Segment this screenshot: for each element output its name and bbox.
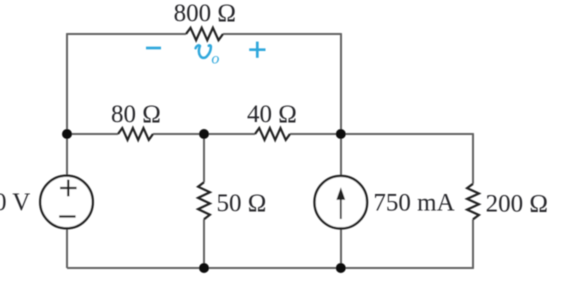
current source arrow shaft: [340, 196, 342, 219]
current source arrow head: [336, 187, 345, 200]
svg-text:200 Ω: 200 Ω: [486, 191, 548, 218]
junction node dot center-middle: [199, 129, 209, 139]
wire top rail right segment: [223, 33, 341, 35]
svg-text:800 Ω: 800 Ω: [174, 0, 236, 27]
junction node dot right-middle (current source top): [336, 129, 346, 139]
voltage source minus sign: [59, 215, 75, 217]
wire current-source vertical upper: [340, 33, 342, 176]
junction node dot left-middle: [62, 129, 72, 139]
resistor 80 ohm zigzag (middle left): [118, 128, 153, 140]
wire left vertical lower: [66, 228, 68, 268]
svg-text:50 Ω: 50 Ω: [217, 190, 267, 217]
label vo plus polarity (cyan): [249, 42, 265, 58]
wire top rail left segment: [67, 33, 186, 35]
current source circle: [315, 176, 368, 229]
resistor 50 ohm zigzag (vertical center): [198, 182, 210, 219]
wire center vertical upper (node to 50ohm): [203, 134, 205, 182]
voltage source plus sign: [60, 180, 77, 197]
resistor 200 ohm zigzag (vertical right): [467, 184, 479, 220]
wire middle rail segment b: [153, 133, 255, 135]
wire right vertical upper (to 200ohm): [472, 133, 474, 184]
resistor 800 ohm zigzag (top): [186, 28, 223, 40]
junction node dot center-bottom: [199, 263, 209, 273]
junction node dot right-bottom: [336, 263, 346, 273]
svg-text:0 V: 0 V: [0, 189, 30, 216]
wire left vertical upper: [66, 33, 68, 176]
svg-text:40 Ω: 40 Ω: [247, 101, 297, 128]
svg-text:750 mA: 750 mA: [373, 190, 454, 217]
resistor 40 ohm zigzag (middle right): [255, 128, 290, 140]
wire right vertical lower (200ohm to bottom): [472, 219, 474, 269]
label vo minus polarity (cyan): [146, 47, 161, 50]
voltage source circle: [40, 176, 93, 229]
wire current-source vertical lower: [340, 229, 342, 269]
svg-text:80 Ω: 80 Ω: [111, 101, 161, 128]
svg-text:o: o: [211, 50, 219, 67]
wire middle rail segment c: [290, 133, 473, 135]
wire bottom rail: [67, 267, 473, 269]
wire center vertical lower (50ohm to bottom): [203, 219, 205, 268]
wire middle rail segment a: [67, 133, 118, 135]
label vo voltage name (cyan italic v glyph): [196, 45, 211, 58]
